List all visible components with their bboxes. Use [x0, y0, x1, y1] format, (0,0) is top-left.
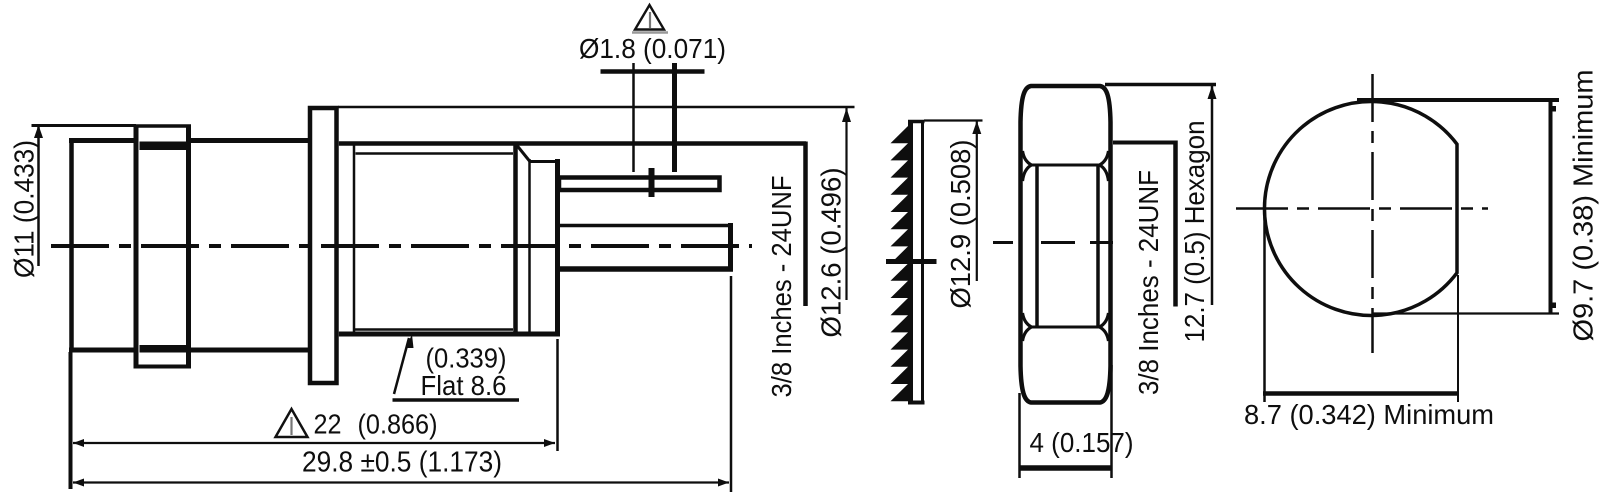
threaded section top edge + 3/8 leader [339, 141, 806, 146]
knurl band right line [186, 125, 191, 369]
dim Ø1.8 extension thin [632, 63, 635, 172]
tab cross tick [649, 168, 655, 197]
svg-text:Ø12.9 (0.508): Ø12.9 (0.508) [945, 140, 976, 309]
inner vertical after flange [353, 145, 356, 332]
dim Ø1.8 dimension line [601, 69, 705, 74]
nut inner vertical left [1035, 164, 1039, 328]
center pin right cap [728, 223, 733, 272]
dim 4 line [1020, 465, 1112, 471]
svg-text:(0.339): (0.339) [426, 343, 507, 374]
svg-text:3/8 Inches - 24UNF: 3/8 Inches - 24UNF [1133, 170, 1164, 395]
body top edge [69, 138, 136, 143]
dim Ø12.6 dimension line + arrow [845, 108, 847, 300]
washer teeth [891, 126, 909, 401]
dim 22 left extension [69, 352, 73, 489]
svg-text:3/8 Inches - 24UNF: 3/8 Inches - 24UNF [766, 176, 797, 398]
nut chamfer cusps top [1023, 151, 1032, 181]
dim Ø11 dimension line + arrow [37, 126, 40, 266]
centerline vertical [1371, 74, 1374, 353]
dim Ø12.9 extension [924, 119, 983, 121]
svg-text:Ø11 (0.433): Ø11 (0.433) [9, 140, 40, 278]
threaded section bottom edge [339, 332, 560, 337]
dim 8.7 line [1263, 391, 1459, 396]
svg-text:8.7 (0.342) Minimum: 8.7 (0.342) Minimum [1244, 399, 1494, 430]
knurl top bump [135, 124, 192, 128]
svg-text:Ø12.6 (0.496): Ø12.6 (0.496) [816, 168, 847, 338]
svg-text:Flat 8.6: Flat 8.6 [421, 370, 507, 401]
dim Ø9.7 bottom extension [1373, 312, 1559, 314]
rear block right edge [555, 159, 560, 337]
center pin top edge [560, 224, 733, 228]
body bottom edge [69, 348, 136, 353]
revision triangle 2 [276, 409, 308, 437]
dim 8.7 left extension [1263, 217, 1266, 402]
svg-text:12.7 (0.5) Hexagon: 12.7 (0.5) Hexagon [1179, 121, 1210, 343]
washer center tick [886, 259, 937, 264]
nut outline [1021, 86, 1111, 403]
dim 12.7 extension [1105, 83, 1216, 87]
dim Ø1.8 extension thick [672, 63, 677, 172]
svg-text:22: 22 [314, 409, 342, 440]
svg-text:(0.866): (0.866) [358, 409, 438, 440]
svg-text:4 (0.157): 4 (0.157) [1030, 427, 1134, 458]
svg-text:Ø1.8 (0.071): Ø1.8 (0.071) [579, 33, 726, 64]
dim Ø9.7 dimension line + ticks [1549, 100, 1553, 314]
rear block top edge [530, 160, 560, 163]
thread minor line bottom [354, 328, 513, 331]
knurl band left line [134, 125, 139, 369]
nut chamfer line bottom [1031, 326, 1100, 329]
dim Ø9.7 top extension [1357, 98, 1559, 102]
dim Ø1.8: revision triangle 1 [635, 5, 664, 30]
dim 12.7 dimension line + arrow [1211, 86, 1214, 305]
centerline horizontal [1236, 207, 1488, 210]
Flat 8.6 leader [394, 338, 409, 394]
solder tab [559, 178, 720, 191]
dim Ø12.6 extension line A [338, 106, 855, 109]
flange [310, 108, 337, 383]
dim 29.8 right extension [730, 276, 733, 492]
dim 29.8 line + arrows [73, 481, 729, 483]
rear thin vertical [528, 159, 531, 334]
dim 4 extensions [1018, 393, 1021, 478]
dim 22 right extension [556, 339, 559, 451]
circle with flat [1264, 101, 1457, 315]
dim 8.7 right extension (chord continuation) [1457, 275, 1459, 402]
dim Ø12.9 dimension line + arrow [976, 121, 978, 281]
nut chamfer line top [1031, 164, 1100, 167]
chamfer diagonal [517, 146, 530, 162]
thread minor line top [356, 152, 514, 155]
nut inner vertical right [1096, 164, 1100, 328]
body left edge [69, 138, 74, 353]
centerline main view [51, 244, 752, 248]
knurl bottom bump [135, 365, 192, 369]
3/8-24UNF leader bracket (left view) [803, 142, 808, 307]
rear thick vertical [513, 143, 518, 334]
nut chamfer cusps bottom [1023, 313, 1032, 341]
svg-text:29.8 ±0.5 (1.173): 29.8 ±0.5 (1.173) [302, 447, 502, 479]
dim 22 line + arrows [73, 442, 555, 444]
3/8-24UNF leader bracket (nut) [1113, 141, 1177, 145]
washer bar [908, 120, 913, 404]
center pin bottom edge [560, 266, 733, 272]
dim Ø11 extension line [32, 124, 137, 127]
svg-text:Ø9.7 (0.38) Minimum: Ø9.7 (0.38) Minimum [1568, 70, 1599, 342]
nut centerline [993, 241, 1113, 244]
